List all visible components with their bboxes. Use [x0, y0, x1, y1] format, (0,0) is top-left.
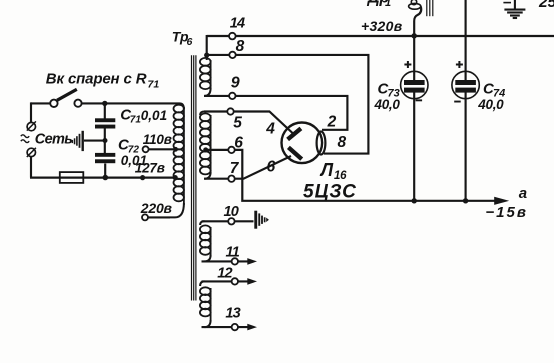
svg-text:13: 13: [225, 306, 240, 322]
svg-text:0,01: 0,01: [141, 108, 167, 123]
svg-text:16: 16: [334, 170, 347, 182]
svg-text:8: 8: [236, 38, 245, 55]
svg-text:Сеть: Сеть: [35, 132, 72, 148]
svg-text:7: 7: [230, 160, 240, 177]
svg-text:−15в: −15в: [485, 204, 528, 221]
svg-text:9: 9: [231, 75, 240, 92]
svg-text:6: 6: [187, 36, 193, 48]
svg-text:8: 8: [338, 134, 347, 151]
svg-text:127в: 127в: [135, 160, 165, 175]
svg-text:12: 12: [217, 266, 232, 282]
svg-text:220в: 220в: [140, 200, 173, 216]
svg-text:5ЦЗС: 5ЦЗС: [303, 182, 357, 203]
svg-text:71: 71: [148, 79, 160, 91]
svg-text:71: 71: [130, 115, 142, 126]
svg-text:+320в: +320в: [361, 18, 403, 34]
svg-text:6: 6: [267, 158, 276, 175]
svg-text:а: а: [519, 185, 527, 202]
svg-text:40,0: 40,0: [477, 97, 504, 112]
svg-text:25,: 25,: [538, 0, 554, 11]
svg-text:110в: 110в: [143, 132, 172, 147]
svg-text:Вк спарен с R: Вк спарен с R: [46, 71, 147, 88]
svg-text:6: 6: [234, 134, 243, 151]
svg-text:10: 10: [224, 204, 239, 220]
svg-text:2: 2: [327, 113, 337, 130]
svg-text:5: 5: [233, 115, 242, 132]
svg-text:14: 14: [230, 15, 245, 31]
svg-text:1: 1: [385, 0, 391, 9]
svg-text:40,0: 40,0: [374, 97, 401, 112]
svg-text:11: 11: [226, 245, 240, 261]
svg-text:4: 4: [265, 121, 275, 138]
svg-text:Л: Л: [319, 160, 334, 180]
